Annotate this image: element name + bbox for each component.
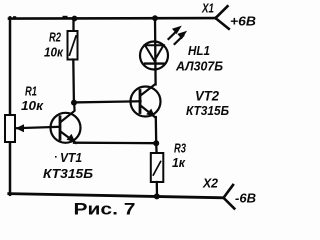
wire VT1 collector bbox=[61, 103, 75, 122]
resistor R2 bbox=[68, 31, 78, 60]
wire top rail ink ticks bbox=[13, 16, 16, 18]
node A (R2 / VT1 collector / VT2 base) bbox=[71, 100, 77, 106]
transistor VT2 bbox=[131, 84, 161, 118]
svg-text:R2: R2 bbox=[49, 31, 61, 45]
svg-text:VT2: VT2 bbox=[195, 89, 219, 104]
svg-text:R3: R3 bbox=[174, 142, 186, 156]
wire bottom rail -6V bbox=[9, 194, 224, 198]
svg-text:VT1: VT1 bbox=[60, 151, 82, 165]
wire R2 top bbox=[72, 19, 74, 32]
svg-text:R1: R1 bbox=[25, 85, 37, 99]
terminal X1 bbox=[216, 6, 229, 29]
terminal X2 bbox=[224, 185, 235, 209]
wire left rail lower bbox=[9, 142, 12, 195]
wire R2 bottom to node bbox=[72, 60, 75, 103]
wire top rail +6V bbox=[9, 17, 216, 20]
svg-text:HL1: HL1 bbox=[188, 44, 210, 58]
node on bottom rail at R3 bbox=[154, 193, 160, 199]
wire node B to R3 bbox=[155, 143, 158, 153]
svg-text:АЛ307Б: АЛ307Б bbox=[175, 60, 223, 74]
svg-text:КТ315Б: КТ315Б bbox=[43, 167, 93, 181]
LED HL1 bbox=[140, 26, 187, 70]
wire HL1 column through LED to VT2 collector bbox=[154, 18, 157, 84]
wire VT2 emitter down bbox=[155, 117, 158, 143]
potentiometer R1 bbox=[5, 115, 24, 142]
svg-text:Рис. 7: Рис. 7 bbox=[74, 200, 136, 219]
svg-text:10к: 10к bbox=[21, 99, 44, 113]
svg-text:-6В: -6В bbox=[235, 192, 256, 206]
svg-text:10к: 10к bbox=[44, 46, 64, 60]
node on top rail at HL1 bbox=[152, 15, 158, 21]
label VT1 bbox=[55, 156, 57, 158]
svg-text:+6В: +6В bbox=[230, 15, 256, 29]
svg-text:X2: X2 bbox=[202, 177, 218, 191]
wire left rail upper bbox=[9, 17, 12, 115]
resistor R3 bbox=[151, 153, 164, 182]
wire VT1 emitter to junction bbox=[74, 142, 156, 145]
node B (emitters / R3) bbox=[153, 140, 159, 146]
wire node to VT2 base bbox=[74, 101, 141, 102]
wire R3 bottom bbox=[156, 182, 158, 197]
transistor VT1 bbox=[51, 113, 81, 143]
node on top rail at R2 bbox=[72, 16, 78, 22]
svg-text:КТ315Б: КТ315Б bbox=[186, 104, 229, 118]
svg-text:1к: 1к bbox=[172, 156, 186, 170]
svg-text:X1: X1 bbox=[201, 2, 214, 16]
wire R1 wiper to VT1 base bbox=[16, 127, 61, 128]
